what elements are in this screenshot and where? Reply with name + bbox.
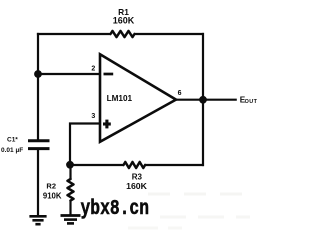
wire: top horizontal right segment from R1 to right rail	[135, 33, 205, 35]
label R1	[118, 7, 129, 17]
resistor R3 (zigzag)	[124, 162, 146, 168]
label 160K (R3 value)	[126, 181, 147, 191]
wire: left vertical rail upper (top corner down to C1 top plate)	[37, 33, 39, 141]
svg-text:2: 2	[91, 66, 95, 73]
label R3	[132, 173, 143, 182]
node: junction dot at output / right rail	[199, 96, 207, 104]
svg-text:R2: R2	[46, 181, 56, 190]
wire: left rail lower from C1 bottom plate to ground	[37, 149, 39, 216]
resistor R1 (zigzag)	[111, 31, 135, 37]
capacitor C1 plates	[28, 141, 50, 149]
op-amp non-inverting input plus sign	[103, 120, 111, 129]
label Eout	[240, 96, 258, 106]
watermark ybx8.cn	[81, 198, 150, 221]
svg-text:910K: 910K	[43, 191, 62, 200]
op-amp inverting input minus sign	[104, 73, 114, 76]
svg-text:C1*: C1*	[7, 137, 18, 144]
wire: top horizontal left segment from left rail to R1	[37, 33, 111, 35]
wire: R3 right lead from zigzag to right rail corner	[145, 164, 204, 166]
wire: R2 top lead from node down to zigzag	[69, 165, 71, 179]
pin number 6 label	[178, 90, 182, 97]
node: junction dot at R2/R3/pin3	[66, 161, 74, 169]
label 910K (R2 value)	[43, 191, 62, 200]
op-amp U1 triangle LM101	[100, 54, 176, 142]
label C1*	[7, 137, 18, 144]
label 0.01 uF (C1 value)	[1, 147, 23, 154]
svg-text:6: 6	[178, 90, 182, 97]
pin number 2 label	[91, 66, 95, 73]
label R2	[46, 181, 56, 190]
svg-text:3: 3	[91, 113, 95, 120]
wire: R2 bottom lead from zigzag to ground	[69, 201, 71, 215]
pin number 3 label	[91, 113, 95, 120]
wire: output wire from op-amp apex to Eout	[176, 99, 237, 101]
node: junction dot at left rail / pin2 wire	[34, 70, 42, 78]
label LM101 inside op-amp	[107, 94, 133, 103]
svg-text:ybx8.cn: ybx8.cn	[81, 198, 150, 221]
label 160K (R1 value)	[113, 16, 135, 26]
wire: right vertical rail from top corner down through output node to R3 corner	[202, 33, 204, 166]
svg-text:LM101: LM101	[107, 94, 133, 103]
resistor R2 (vertical zigzag)	[68, 179, 74, 201]
svg-text:160K: 160K	[113, 16, 135, 26]
wire: pin 2 input wire from left rail to op-amp	[38, 73, 100, 75]
svg-text:160K: 160K	[126, 181, 147, 191]
svg-text:0.01 µF: 0.01 µF	[1, 147, 23, 154]
ground symbol below R2	[61, 216, 81, 224]
wire: pin 3 input wire (horizontal from op-amp then down to R2/R3 node)	[70, 124, 100, 166]
svg-text:OUT: OUT	[245, 99, 258, 105]
wire: R3 left lead from node to zigzag	[70, 164, 124, 166]
ground symbol below C1	[29, 216, 46, 224]
